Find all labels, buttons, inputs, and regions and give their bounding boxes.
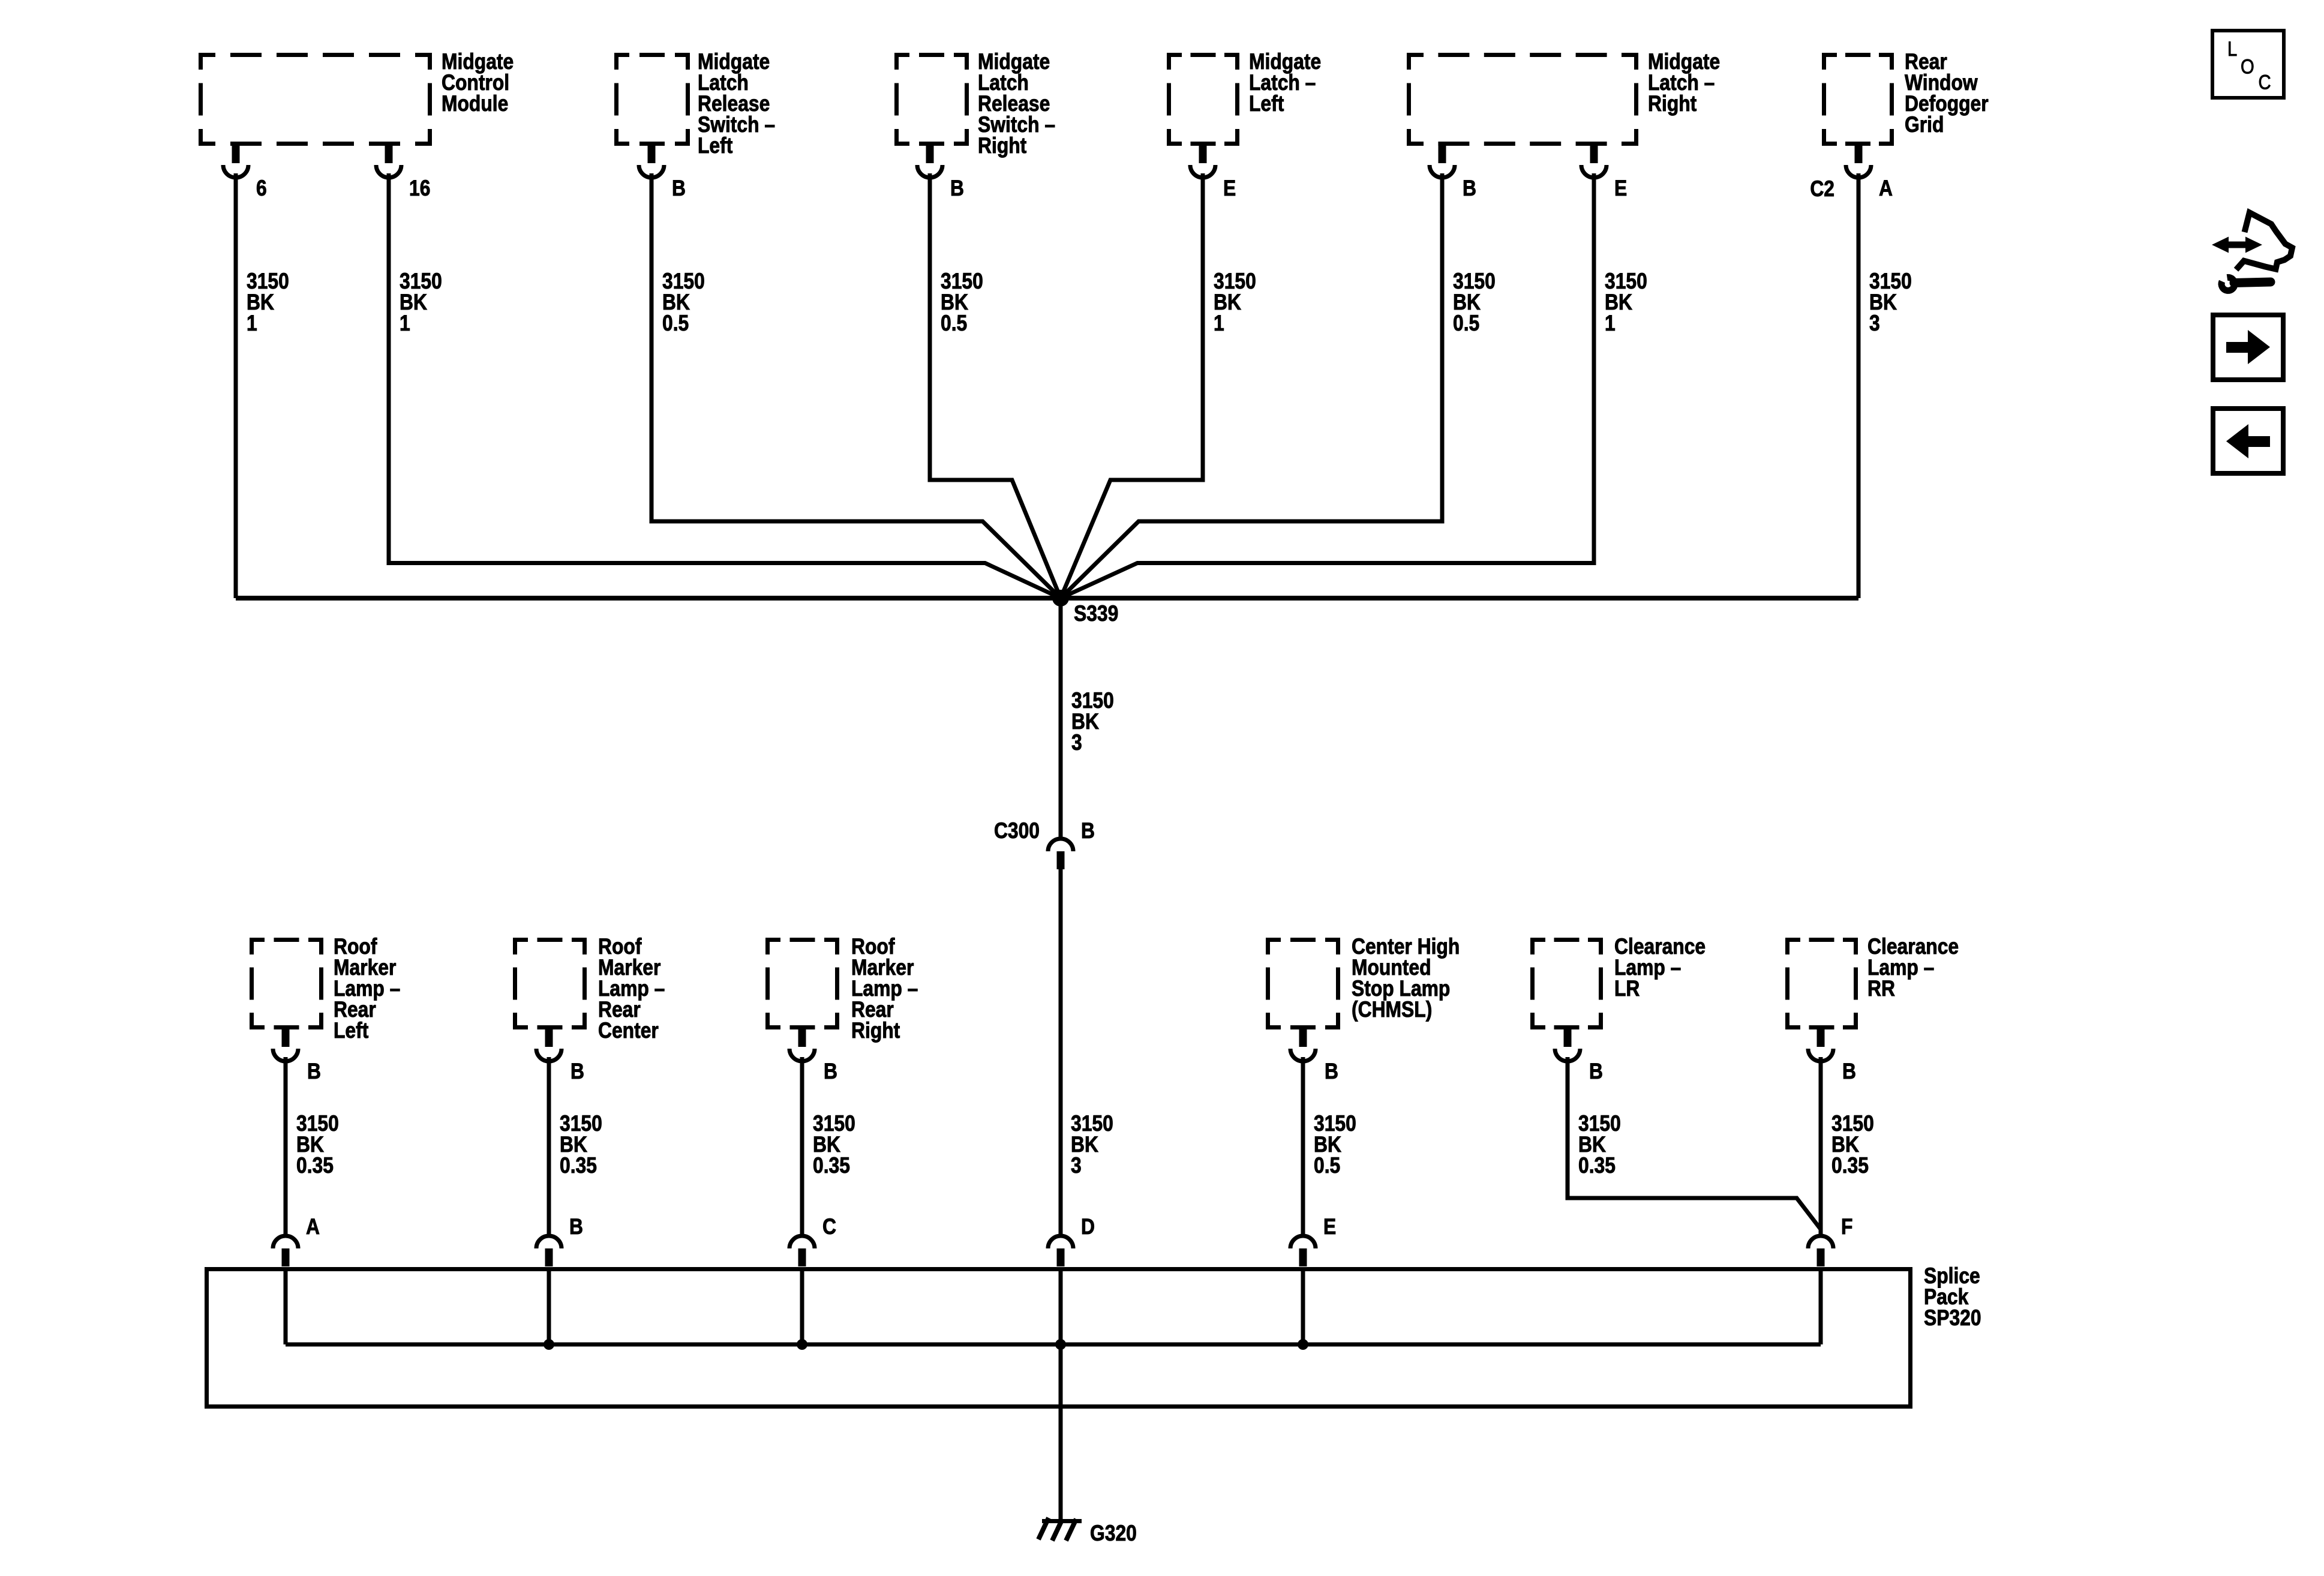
pin label F	[1841, 1215, 1852, 1239]
wire label 3150 BK 0.5	[1314, 1112, 1356, 1178]
connector box: Midgate Latch - Left	[1167, 53, 1239, 146]
svg-text:Right: Right	[978, 134, 1027, 158]
wire Clearance Lamp LR to splice pin F	[1568, 1057, 1821, 1229]
wire label 3150 BK 0.5	[1453, 269, 1496, 336]
wire label 3150 BK 3	[1869, 269, 1912, 336]
svg-text:Center: Center	[598, 1019, 659, 1043]
wire pin 16 to S339	[389, 173, 1061, 598]
svg-text:0.5: 0.5	[941, 311, 967, 336]
svg-text:A: A	[306, 1215, 320, 1239]
junction dot on bus at x=1337	[797, 1339, 807, 1350]
connector pin 6 at x=393	[223, 146, 248, 178]
pin label E	[1614, 176, 1627, 201]
svg-text:B: B	[571, 1059, 584, 1084]
wire label 3150 BK 3 (lower)	[1071, 1112, 1113, 1178]
svg-text:Right: Right	[1648, 92, 1697, 116]
wire Midgate Latch Right pin B to S339	[1061, 173, 1442, 598]
connector pin B at x=2404	[1430, 146, 1455, 178]
connector pin B at x=1550	[917, 146, 942, 178]
pin label B	[672, 176, 686, 201]
pin label E	[1323, 1215, 1336, 1239]
connector label C300	[994, 819, 1040, 843]
connector box: Midgate Latch Release Switch - Left	[614, 53, 690, 146]
label Roof Marker Lamp - Rear Left	[334, 935, 400, 1043]
wire Midgate Latch Left pin E to S339	[1061, 173, 1203, 598]
wire label 3150 BK 0.35	[296, 1112, 339, 1178]
wire lamp pin to splice pack at x=476	[284, 1057, 288, 1234]
connector box: Center High Mounted Stop Lamp (CHMSL)	[1266, 938, 1340, 1029]
wire Midgate Latch Right pin E to S339	[1061, 173, 1594, 598]
junction dot on bus at x=1768	[1055, 1339, 1066, 1350]
wire C300 to splice pack pin D	[1059, 869, 1063, 1235]
splice pack pin E	[1290, 1236, 1316, 1266]
svg-text:3: 3	[1071, 731, 1082, 755]
svg-text:Left: Left	[1249, 92, 1284, 116]
junction dot on bus at x=2172	[1298, 1339, 1308, 1350]
svg-text:1: 1	[1214, 311, 1224, 336]
pin label B	[1463, 176, 1476, 201]
splice pack pin B	[536, 1236, 562, 1266]
splice pack pin A	[273, 1236, 298, 1266]
wire Clearance Lamp RR to splice pin F	[1819, 1057, 1823, 1234]
pin label D	[1081, 1215, 1095, 1239]
connector pin B at x=915	[536, 1029, 562, 1061]
label Roof Marker Lamp - Rear Right	[851, 935, 918, 1043]
wire label 3150 BK 1	[1214, 269, 1256, 336]
pin label B	[307, 1059, 321, 1084]
legend box: arrow right (circuit continues)	[2213, 315, 2283, 380]
connector pin B at x=3035	[1808, 1029, 1833, 1061]
label Clearance Lamp - LR	[1614, 935, 1706, 1001]
svg-text:B: B	[672, 176, 686, 201]
ground label G320	[1090, 1521, 1137, 1546]
svg-text:E: E	[1323, 1215, 1336, 1239]
connector pin 16 at x=648	[376, 146, 401, 178]
wire label 3150 BK 0.35	[560, 1112, 602, 1178]
svg-text:S339: S339	[1074, 602, 1118, 626]
connector box: Clearance Lamp - LR	[1530, 938, 1603, 1029]
svg-text:C: C	[2259, 70, 2271, 94]
wire label 3150 BK 0.5	[941, 269, 983, 336]
wire lamp pin to splice pack at x=2172	[1301, 1057, 1305, 1234]
svg-text:B: B	[1463, 176, 1476, 201]
splice pack pin C	[789, 1236, 815, 1266]
svg-text:B: B	[1325, 1059, 1338, 1084]
svg-text:1: 1	[1605, 311, 1616, 336]
svg-text:1: 1	[247, 311, 257, 336]
pin label B (C300)	[1081, 819, 1095, 843]
splice pack pin D	[1048, 1236, 1073, 1266]
svg-text:B: B	[307, 1059, 321, 1084]
wire Midgate Latch Release Switch Left pin B to S339	[651, 173, 1061, 598]
label Roof Marker Lamp - Rear Center	[598, 935, 665, 1043]
label Midgate Latch Release Switch - Left	[698, 50, 775, 158]
svg-text:C2: C2	[1810, 177, 1834, 202]
label Rear Window Defogger Grid	[1905, 50, 1989, 137]
connector box: Midgate Control Module	[199, 53, 432, 146]
pin label C	[822, 1215, 836, 1239]
svg-text:LR: LR	[1614, 977, 1640, 1001]
wire splice pin D to internal bus	[1059, 1267, 1063, 1344]
wire splice pin A to internal bus	[284, 1267, 288, 1344]
pin label E	[1223, 176, 1236, 201]
wire label 3150 BK 3 (upper)	[1071, 689, 1114, 755]
connector pin B at x=476	[273, 1029, 298, 1061]
connector pin B at x=1337	[789, 1029, 815, 1061]
svg-text:A: A	[1879, 176, 1893, 201]
connector box: Rear Window Defogger Grid	[1822, 53, 1894, 146]
pin label A	[1879, 176, 1893, 201]
wire Midgate Latch Release Switch Right pin B to S339	[930, 173, 1061, 598]
svg-text:0.35: 0.35	[296, 1154, 334, 1178]
wire label 3150 BK 0.5	[662, 269, 705, 336]
pin label B	[569, 1215, 583, 1239]
svg-text:B: B	[569, 1215, 583, 1239]
svg-text:0.5: 0.5	[662, 311, 689, 336]
svg-text:RR: RR	[1867, 977, 1895, 1001]
pin label 16	[409, 176, 430, 201]
pin label B	[1842, 1059, 1856, 1084]
wire S339 to C300	[1059, 598, 1063, 837]
connector pin B at x=2172	[1290, 1029, 1316, 1061]
svg-text:Left: Left	[698, 134, 733, 158]
connector C300 pin B	[1048, 839, 1073, 869]
svg-text:16: 16	[409, 176, 430, 201]
svg-text:Module: Module	[442, 92, 508, 116]
svg-text:0.5: 0.5	[1314, 1154, 1340, 1178]
svg-text:1: 1	[400, 311, 410, 336]
svg-text:E: E	[1223, 176, 1236, 201]
pin label A	[306, 1215, 320, 1239]
legend box: arrow left (circuit continues)	[2213, 409, 2283, 473]
wire label 3150 BK 0.35	[1578, 1112, 1621, 1178]
svg-text:F: F	[1841, 1215, 1852, 1239]
node S339 label	[1074, 602, 1118, 626]
wire main horizontal run through S339	[236, 596, 1858, 601]
label Midgate Latch Release Switch - Right	[978, 50, 1055, 158]
wire Rear Window Defogger Grid pin A down	[1857, 173, 1861, 598]
LOC letters	[2227, 37, 2271, 94]
connector pin A at x=3098	[1846, 146, 1871, 178]
wire label 3150 BK 1	[247, 269, 289, 336]
label Center High Mounted Stop Lamp (CHMSL)	[1352, 935, 1460, 1022]
svg-text:Grid: Grid	[1905, 113, 1944, 137]
wire label 3150 BK 1	[1605, 269, 1647, 336]
wire lamp pin to splice pack at x=915	[547, 1057, 551, 1234]
svg-text:O: O	[2241, 55, 2254, 78]
splice pack pin F	[1808, 1236, 1833, 1266]
svg-text:(CHMSL): (CHMSL)	[1352, 998, 1432, 1022]
label Midgate Latch - Right	[1648, 50, 1720, 116]
svg-text:0.35: 0.35	[1578, 1154, 1616, 1178]
svg-text:0.35: 0.35	[813, 1154, 850, 1178]
connector box: Roof Marker Lamp - Rear Center	[513, 938, 587, 1029]
connector box: Roof Marker Lamp - Rear Right	[765, 938, 839, 1029]
svg-text:3: 3	[1071, 1154, 1082, 1178]
svg-text:Right: Right	[851, 1019, 900, 1043]
svg-text:L: L	[2227, 37, 2237, 61]
ground G320 symbol	[1038, 1518, 1082, 1541]
wire pin 6 down to main run	[234, 173, 238, 598]
connector id label C2 (Rear Window Defogger Grid)	[1810, 177, 1834, 202]
svg-text:B: B	[824, 1059, 837, 1084]
svg-text:D: D	[1081, 1215, 1095, 1239]
splice S339 junction dot	[1052, 590, 1069, 607]
junction dot on bus at x=915	[544, 1339, 554, 1350]
wire label 3150 BK 1	[400, 269, 442, 336]
svg-text:C300: C300	[994, 819, 1040, 843]
svg-text:G320: G320	[1090, 1521, 1137, 1546]
connector box: Roof Marker Lamp - Rear Left	[250, 938, 323, 1029]
connector pin B at x=2613	[1555, 1029, 1580, 1061]
svg-text:B: B	[1081, 819, 1095, 843]
svg-text:6: 6	[256, 176, 267, 201]
wire lamp pin to splice pack at x=1337	[800, 1057, 804, 1234]
svg-text:Left: Left	[334, 1019, 369, 1043]
svg-text:C: C	[822, 1215, 836, 1239]
svg-text:B: B	[1589, 1059, 1603, 1084]
LOC legend box	[2212, 31, 2284, 98]
svg-text:0.35: 0.35	[1831, 1154, 1869, 1178]
label Midgate Latch - Left	[1249, 50, 1321, 116]
pin label B	[950, 176, 964, 201]
wire label 3150 BK 0.35	[1831, 1112, 1874, 1178]
wire splice pin E to internal bus	[1301, 1267, 1305, 1344]
connector box: Midgate Latch - Right	[1407, 53, 1638, 146]
splice pack internal bus	[286, 1343, 1821, 1347]
svg-text:E: E	[1614, 176, 1627, 201]
connector box: Midgate Latch Release Switch - Right	[894, 53, 969, 146]
pin label 6	[256, 176, 267, 201]
splice pack SP320 outline	[207, 1269, 1911, 1407]
svg-text:0.5: 0.5	[1453, 311, 1479, 336]
pin label B	[1589, 1059, 1603, 1084]
label Clearance Lamp - RR	[1867, 935, 1959, 1001]
svg-text:3: 3	[1869, 311, 1880, 336]
svg-text:B: B	[950, 176, 964, 201]
label Splice Pack SP320	[1924, 1264, 1981, 1331]
connector pin E at x=2657	[1581, 146, 1607, 178]
label Midgate Control Module	[442, 50, 514, 116]
pin label B	[1325, 1059, 1338, 1084]
service icon: vehicle outline with double arrow and wrench	[2212, 212, 2292, 290]
pin label B	[571, 1059, 584, 1084]
svg-text:B: B	[1842, 1059, 1856, 1084]
svg-text:SP320: SP320	[1924, 1306, 1981, 1331]
connector pin B at x=1086	[639, 146, 664, 178]
wire splice pin F to internal bus	[1819, 1267, 1823, 1344]
svg-text:0.35: 0.35	[560, 1154, 597, 1178]
wire splice pin C to internal bus	[800, 1267, 804, 1344]
connector pin E at x=2005	[1190, 146, 1215, 178]
wire splice pin B to internal bus	[547, 1267, 551, 1344]
connector box: Clearance Lamp - RR	[1785, 938, 1858, 1029]
wire splice pack to ground G320	[1059, 1344, 1063, 1521]
wire label 3150 BK 0.35	[813, 1112, 855, 1178]
pin label B	[824, 1059, 837, 1084]
